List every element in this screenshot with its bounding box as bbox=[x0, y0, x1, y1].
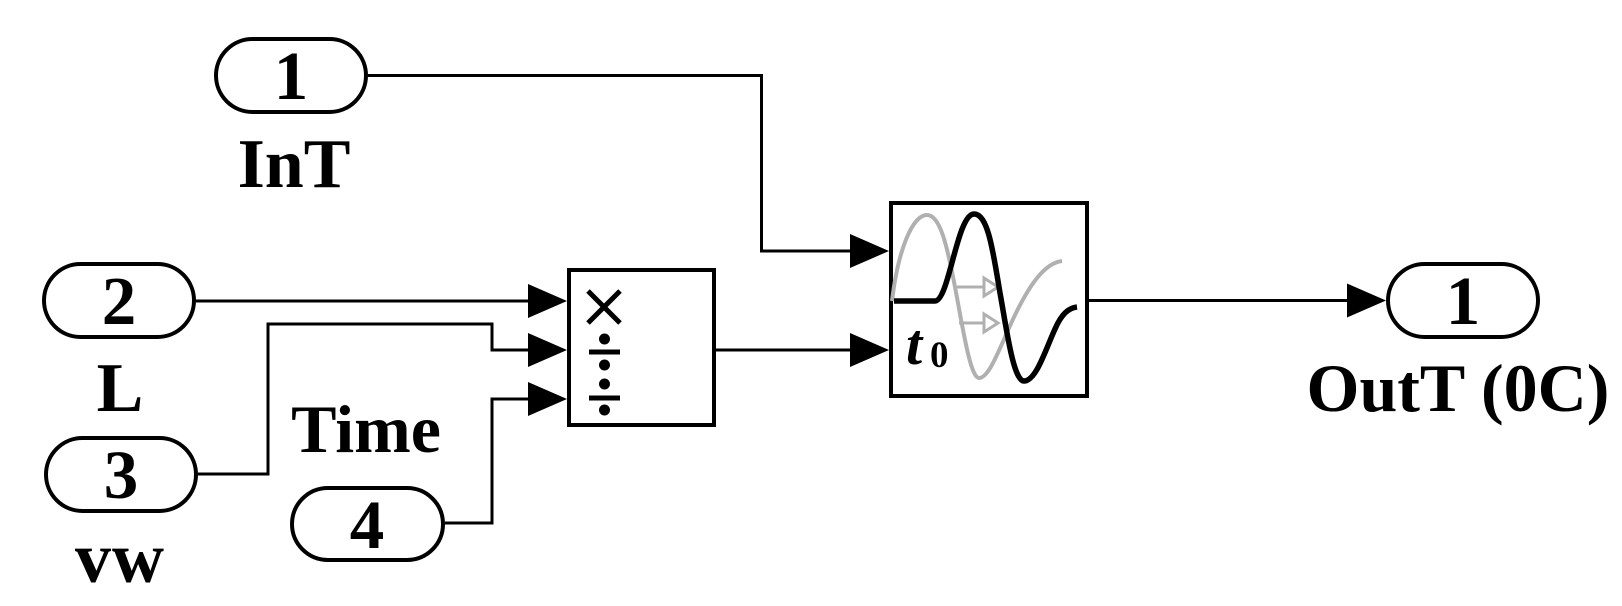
delay icon black delayed sine bbox=[894, 214, 1077, 381]
svg-text:3: 3 bbox=[104, 437, 139, 513]
svg-text:vw: vw bbox=[75, 518, 165, 598]
arrowhead InT into delay block input 1 bbox=[850, 234, 889, 268]
delay block icon bbox=[892, 214, 1077, 381]
svg-text:t: t bbox=[906, 312, 924, 377]
wire Time to product input 3 bbox=[445, 399, 529, 523]
product block divide symbol 2 bbox=[589, 379, 620, 416]
delay icon gray shift arrow 1 bbox=[957, 278, 998, 296]
delay icon gray shift arrow 2 bbox=[959, 314, 998, 332]
inport 4 oval bbox=[292, 488, 443, 560]
wire L to product input 1 bbox=[196, 300, 529, 303]
delay block outline bbox=[891, 203, 1087, 396]
delay icon gray input sine bbox=[892, 215, 1062, 378]
svg-text:1: 1 bbox=[1446, 263, 1481, 339]
arrowhead L into product input 1 bbox=[528, 284, 567, 318]
arrowhead product into delay block input 2 bbox=[850, 333, 889, 367]
svg-text:Time: Time bbox=[291, 391, 441, 467]
svg-text:0: 0 bbox=[930, 335, 949, 376]
arrowhead Time into product input 3 bbox=[528, 382, 567, 416]
product block multiply symbol bbox=[588, 291, 620, 323]
inport 1 oval bbox=[216, 39, 366, 112]
inport 3 oval bbox=[46, 438, 196, 511]
outport 1 oval bbox=[1388, 264, 1538, 337]
arrowhead into outport bbox=[1347, 284, 1386, 318]
wire product output to delay block input 2 bbox=[716, 349, 851, 352]
wire vw to product input 2 bbox=[198, 324, 529, 474]
svg-text:4: 4 bbox=[350, 487, 385, 563]
wire delay output to outport bbox=[1089, 299, 1348, 302]
wire InT to delay block bbox=[368, 76, 851, 252]
inport 2 oval bbox=[44, 264, 194, 337]
svg-text:2: 2 bbox=[102, 263, 137, 339]
svg-text:OutT (0C): OutT (0C) bbox=[1307, 350, 1610, 426]
svg-text:L: L bbox=[97, 350, 144, 427]
svg-text:1: 1 bbox=[274, 38, 309, 114]
svg-text:InT: InT bbox=[238, 126, 351, 203]
product block divide symbol 1 bbox=[589, 334, 620, 371]
product block outline bbox=[569, 270, 714, 425]
arrowhead vw into product input 2 bbox=[528, 333, 567, 367]
